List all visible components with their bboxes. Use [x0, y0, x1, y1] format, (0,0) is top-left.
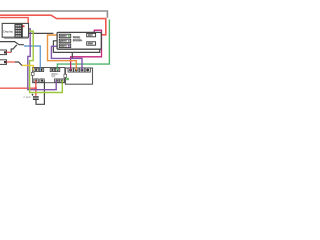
block display [2, 23, 28, 38]
svg-text:Display: Display [3, 29, 13, 33]
wire red display feed [0, 18, 28, 27]
wire tips into MCU bottom pins [35, 80, 37, 83]
wire black capacitor ground [36, 81, 44, 105]
wire tips into speaker pins [70, 68, 72, 71]
wire black S1 [11, 45, 17, 53]
MCU bottom pin boxes [34, 79, 64, 82]
wire red capacitor feed [0, 81, 36, 96]
speaker left tab [64, 74, 67, 77]
wire black left edge net [0, 42, 24, 45]
capacitor C1 [23, 94, 38, 100]
block pushbutton S2 [0, 60, 22, 66]
display pin header [15, 24, 23, 37]
svg-text:2.2µF: 2.2µF [23, 95, 31, 99]
junction red [35, 87, 37, 89]
wire black encoder net [53, 36, 99, 59]
wire black S2 [15, 62, 22, 65]
wire orange [48, 35, 77, 71]
wire lime display column [23, 31, 63, 92]
wire green right vertical [57, 20, 109, 71]
wire red top rail [0, 15, 106, 35]
wire gray top rail [0, 11, 107, 18]
encoder pin Pin [87, 33, 96, 36]
wire purple display column [23, 29, 57, 90]
wire red stub S1 [7, 51, 12, 53]
display red pin [23, 25, 25, 27]
wire black DT horizontal [23, 32, 54, 34]
encoder pin CLK [59, 34, 70, 38]
wire tips into MCU top pins [32, 68, 34, 71]
encoder pin SW [59, 44, 70, 48]
block MCU [31, 68, 64, 83]
block pushbutton S1 [0, 45, 17, 55]
MCU top pin boxes [34, 68, 60, 71]
wire yellow [22, 65, 33, 70]
speaker green pin [66, 78, 68, 80]
block speaker connector [64, 68, 93, 84]
wire purple SW [51, 46, 82, 70]
wire magenta [71, 30, 102, 70]
block rotary encoder [57, 32, 101, 49]
wire blue [24, 46, 40, 70]
wire red stub S2 [7, 61, 16, 63]
encoder pin DT [59, 39, 70, 43]
encoder pin Gnd [87, 42, 96, 45]
